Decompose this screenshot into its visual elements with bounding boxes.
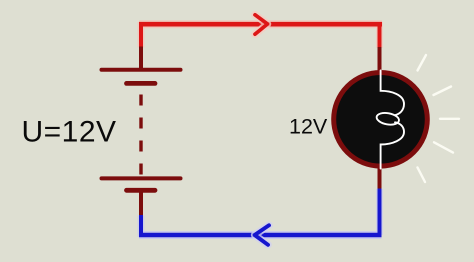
svg-text:U=12V: U=12V bbox=[22, 116, 117, 149]
svg-text:12V: 12V bbox=[289, 115, 328, 139]
